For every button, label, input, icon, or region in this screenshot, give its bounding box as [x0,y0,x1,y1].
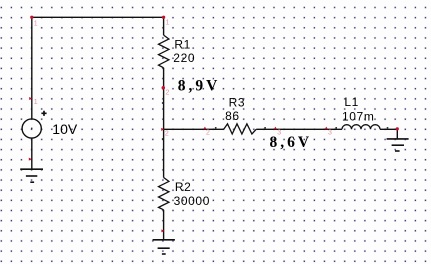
svg-text:10V: 10V [52,121,78,137]
wire L1 to right ground [380,129,397,139]
svg-text:8,9V: 8,9V [178,77,221,94]
wire top horizontal [32,16,164,18]
svg-text:R3: R3 [229,95,246,109]
svg-text:107m: 107m [342,110,374,124]
svg-text:3: 3 [277,130,281,137]
pin tick L1 left [335,127,337,128]
arrow marker V1 plus [29,97,32,100]
node junction marker [161,128,164,131]
svg-text:2: 2 [206,130,210,137]
svg-text:1: 1 [166,20,170,27]
pin tick R3 right [264,127,266,128]
inductor L1 [342,125,380,130]
svg-text:220: 220 [173,51,195,65]
svg-text:3: 3 [328,130,332,137]
svg-text:8,6V: 8,6V [270,134,313,151]
svg-text:2: 2 [166,90,170,97]
resistor R3 [224,124,257,134]
svg-text:30000: 30000 [174,194,210,208]
resistor R1 [159,17,169,129]
svg-text:R2: R2 [175,180,192,194]
arrow marker R1 bottom [162,86,166,90]
wire source to ground [31,138,33,169]
voltage source V1 [22,111,46,138]
wire left vertical [31,17,33,119]
node dot top-right [162,16,165,19]
arrow marker R2 bottom [161,229,164,232]
arrow marker R3 pin1 [203,127,206,130]
node dot top-left [30,16,33,19]
ground left [20,169,43,182]
arrow marker L1 pin1 [325,127,328,130]
svg-text:1: 1 [34,99,38,106]
arrow marker R3 pin2 [274,127,277,130]
arrow marker V1 minus [29,158,32,161]
ground bottom [153,240,175,254]
ground right [387,139,409,151]
pin tick L1 right [387,127,389,128]
pin tick R3 left [215,127,217,128]
node dot right corner [396,127,399,130]
svg-text:1: 1 [34,21,38,28]
wire node to R3 [164,128,224,130]
resistor R2 [159,129,169,240]
svg-text:R1: R1 [174,38,191,52]
svg-text:2: 2 [165,131,169,138]
svg-text:L1: L1 [344,95,359,109]
svg-text:86: 86 [225,109,240,123]
wire R3 to L1 [256,128,342,130]
